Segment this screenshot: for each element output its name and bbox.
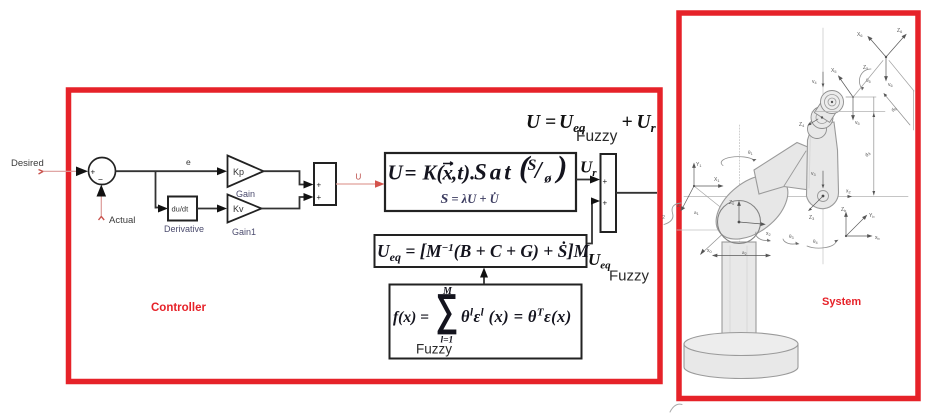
wrist lower disc <box>808 120 827 139</box>
rotation arc theta5 <box>859 69 871 88</box>
axis Y1 <box>693 166 695 186</box>
svg-text:f(x) =: f(x) = <box>393 309 429 326</box>
svg-text:Kp: Kp <box>233 167 244 177</box>
wire Ueq to sum2 <box>587 201 594 244</box>
svg-text:Fuzzy: Fuzzy <box>576 128 618 145</box>
svg-text:Z6: Z6 <box>897 28 902 34</box>
svg-text:+: + <box>317 181 322 190</box>
arrowhead up into Ueq block <box>480 268 488 278</box>
svg-text:=: = <box>405 161 417 185</box>
axis Z1 <box>683 186 695 208</box>
sum junction circle <box>89 158 116 185</box>
svg-text:2: 2 <box>662 215 665 221</box>
frame F1 <box>681 164 723 211</box>
svg-text:x2: x2 <box>846 189 851 195</box>
wire Kp to sum1 <box>264 171 306 184</box>
saturation equation block U=K(x,t).Sat(S/o) <box>385 153 576 211</box>
svg-text:du/dt: du/dt <box>172 205 190 214</box>
svg-text:Z4: Z4 <box>799 122 804 128</box>
link line frame1 to shoulder <box>694 186 739 222</box>
frame F0 at shoulder <box>738 202 765 226</box>
rotation arc theta3 <box>783 239 797 244</box>
svg-text:S = λU + U̇: S = λU + U̇ <box>441 192 500 207</box>
frame F5 <box>839 76 855 120</box>
svg-text:e: e <box>186 157 191 167</box>
svg-text:v4: v4 <box>812 79 817 85</box>
wire sum to branch and Kp <box>116 170 220 172</box>
svg-text:Ur: Ur <box>637 112 657 135</box>
wire U (red) sum1 to sat block <box>336 183 377 185</box>
axis Y3 down in forearm <box>822 171 824 186</box>
arrowhead into sum junction <box>76 167 88 177</box>
arrowhead into Kp <box>217 167 227 175</box>
svg-text:Gain: Gain <box>236 189 255 199</box>
svg-text:Kv: Kv <box>233 204 244 214</box>
svg-text:+: + <box>603 177 608 186</box>
construction line F6 to F5 <box>854 61 883 97</box>
wrist band <box>814 97 839 122</box>
shoulder front circle <box>718 201 761 244</box>
rotation arc theta1 <box>721 157 754 166</box>
svg-text:+: + <box>317 193 322 202</box>
wire Kv to sum1 <box>262 197 306 209</box>
sum block sum2 <box>601 154 617 232</box>
svg-text:U: U <box>388 161 405 185</box>
svg-text:X6: X6 <box>857 32 862 38</box>
svg-text:θ4: θ4 <box>813 239 818 245</box>
red arrowhead into sat block <box>375 180 385 188</box>
shoulder cylinder link2 <box>704 162 799 252</box>
construction line horizontal through shoulder lower <box>677 229 757 231</box>
wrist lower horizontal line <box>812 111 885 113</box>
wire Desired (red) <box>43 170 78 172</box>
svg-text:v5: v5 <box>855 120 860 126</box>
svg-text:Z3: Z3 <box>809 215 814 221</box>
svg-text:Gain1: Gain1 <box>232 227 256 237</box>
controller boundary box <box>69 90 661 382</box>
svg-text:X1: X1 <box>714 177 719 183</box>
upper arm link <box>754 143 810 195</box>
wire sat block to sum2 <box>576 179 592 181</box>
svg-text:a1: a1 <box>694 210 699 216</box>
arrowhead into sum2 upper <box>590 176 600 184</box>
Desired port chevron <box>39 170 44 175</box>
svg-text:Desired: Desired <box>11 158 44 169</box>
wire fuzzy block to Ueq block <box>483 275 485 284</box>
svg-text:,t).: ,t). <box>451 161 475 185</box>
svg-text:x0: x0 <box>707 248 712 254</box>
frame F6 top right <box>868 35 906 81</box>
rotation arc theta2 <box>756 232 769 240</box>
svg-text:Fuzzy: Fuzzy <box>609 268 650 285</box>
svg-text:+: + <box>603 199 608 208</box>
svg-text:θ1: θ1 <box>748 150 753 156</box>
wrist axis Z4 <box>810 119 818 124</box>
axis Y0 <box>739 222 762 224</box>
forearm paddle link3 <box>807 122 839 209</box>
svg-text:U: U <box>356 173 362 182</box>
gain Kv triangle <box>228 195 262 223</box>
arrowhead into Kv <box>217 205 227 213</box>
arrowhead into sum1 lower <box>304 193 314 201</box>
system boundary box <box>679 13 918 399</box>
svg-text:Ur: Ur <box>580 158 597 180</box>
wire branch to derivative <box>156 207 161 209</box>
wrist top horizontal line <box>846 96 876 98</box>
dimension diagonal d6 <box>885 95 910 125</box>
arrowhead up into sum junction <box>97 185 107 197</box>
rotation squiggle theta2 outside box <box>664 203 681 225</box>
elbow joint rings <box>818 191 829 202</box>
svg-text:System: System <box>822 296 861 308</box>
svg-text:d3: d3 <box>864 151 872 159</box>
svg-text:+: + <box>91 168 96 177</box>
small arc below system box <box>670 404 682 412</box>
centerline column (dotted) <box>739 125 741 258</box>
derivative block du/dt <box>168 197 197 221</box>
svg-text:Yb: Yb <box>869 213 874 219</box>
svg-text:M: M <box>442 286 453 297</box>
dimension line d3 vertical <box>873 97 875 195</box>
vector arrow over x <box>443 162 453 166</box>
svg-text:d6: d6 <box>890 106 898 114</box>
wrist mid disc <box>811 107 833 129</box>
svg-text:Controller: Controller <box>151 302 206 314</box>
arrowhead into sum2 lower <box>591 197 600 204</box>
wire sum2 output to system <box>616 192 657 194</box>
base disc <box>684 344 798 379</box>
sum block sum1 <box>314 163 336 205</box>
svg-text:U: U <box>526 112 541 133</box>
svg-text:=: = <box>545 112 556 133</box>
svg-text:xb: xb <box>875 235 880 241</box>
svg-text:Derivative: Derivative <box>164 224 204 234</box>
node shoulder joint dot <box>738 221 741 224</box>
svg-text:+: + <box>622 112 633 133</box>
svg-text:Fuzzy: Fuzzy <box>416 342 452 357</box>
arrowhead into derivative <box>158 205 168 213</box>
arrowhead into sum1 upper <box>304 181 314 189</box>
centerline forearm <box>822 28 824 264</box>
svg-text:Actual: Actual <box>109 215 135 226</box>
fuzzy equation block f(x) <box>390 285 582 359</box>
construction line horizontal through elbow <box>684 196 908 198</box>
svg-text:θlεl (x) = θTε(x): θlεl (x) = θTε(x) <box>461 307 572 327</box>
rotation arc theta4 <box>807 242 836 249</box>
wire Actual (red vertical) <box>100 193 102 216</box>
construction line F6 down right <box>889 61 914 92</box>
dimension line right vertical <box>913 91 915 130</box>
svg-text:Sat: Sat <box>474 160 514 185</box>
wrist axis Y4 <box>822 72 824 85</box>
svg-text:θ3: θ3 <box>789 234 794 240</box>
svg-text:X5: X5 <box>831 68 836 74</box>
svg-text:v6: v6 <box>888 82 893 88</box>
axis X2 arrow on elbow line <box>848 195 853 198</box>
column link1 <box>722 242 756 338</box>
svg-text:Zb: Zb <box>841 207 846 213</box>
svg-text:ø: ø <box>544 172 553 187</box>
axis Z3 from elbow <box>810 197 822 209</box>
node branch point <box>155 171 157 208</box>
Actual port chevron <box>99 217 105 221</box>
equation Ueq block <box>375 235 587 267</box>
frame Fb lower right <box>845 213 872 238</box>
axis X0 long diagonal <box>701 177 784 254</box>
svg-text:x2: x2 <box>766 231 771 237</box>
svg-text:Ueq: Ueq <box>588 250 611 272</box>
wire derivative to Kv <box>197 208 219 210</box>
dimension a2 horizontal <box>713 254 770 257</box>
svg-text:Ueq = [M−1(B + C + G) + Ṡ]M: Ueq = [M−1(B + C + G) + Ṡ]M <box>377 241 591 264</box>
wrist top flange <box>821 91 844 114</box>
svg-text:−: − <box>98 175 103 185</box>
axis Z0 <box>738 204 740 222</box>
node joint dot <box>693 185 695 187</box>
svg-text:Y1: Y1 <box>696 162 701 168</box>
gain Kp triangle <box>228 156 264 188</box>
axis X1 <box>694 185 720 187</box>
